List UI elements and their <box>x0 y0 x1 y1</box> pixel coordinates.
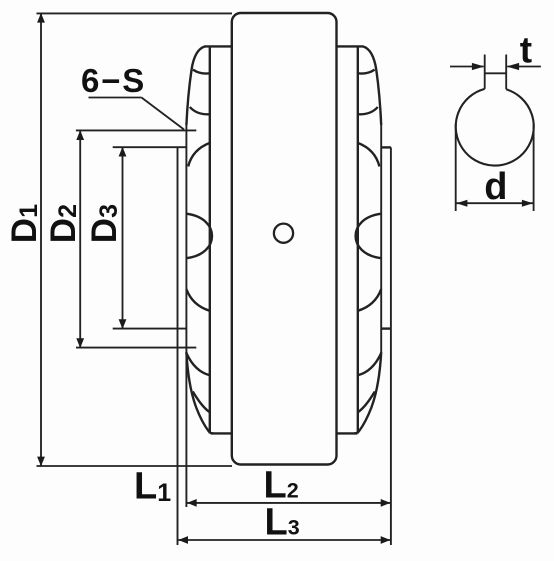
left hub face vertical (also L3 extension) <box>177 147 179 545</box>
right chain scallop arc 1 <box>358 70 375 74</box>
keyway right vertical <box>505 55 507 90</box>
left chain scallop arc 6 <box>187 354 210 376</box>
right chain edge vertical <box>380 125 382 352</box>
coupling body (center rounded rectangle) <box>232 13 337 465</box>
svg-text:D2: D2 <box>44 204 83 243</box>
L3 left arrowhead <box>178 536 188 544</box>
D3 top arrowhead <box>119 147 127 157</box>
left flange top edge <box>205 45 232 47</box>
D1 dimension line <box>40 13 42 465</box>
d left arrowhead <box>456 200 467 207</box>
right hub bottom edge <box>381 327 391 329</box>
right chain scallop arc 6 <box>358 354 381 376</box>
left chain scallop arc 1 <box>193 70 210 74</box>
left flange top profile <box>186 46 205 125</box>
D1 top arrowhead <box>37 13 45 23</box>
D2 top extension line <box>76 129 196 131</box>
keyway slot line <box>485 72 507 74</box>
D2 top arrowhead <box>76 130 84 140</box>
svg-text:L1: L1 <box>134 466 171 508</box>
svg-text:D3: D3 <box>85 204 124 243</box>
right chain roller semicircle <box>356 214 382 259</box>
D2 bottom extension line <box>76 347 196 349</box>
bore circle with keyway gap <box>456 89 534 166</box>
right hub face vertical (also L2/L3 extension) <box>390 147 392 545</box>
t right arrow line <box>507 66 541 68</box>
L2 left arrowhead <box>187 499 197 507</box>
small hole in body center <box>274 224 293 243</box>
svg-text:t: t <box>520 29 532 70</box>
right chain scallop arc 2 <box>358 107 378 114</box>
keyway left vertical <box>484 55 486 89</box>
d dimension line <box>456 202 534 204</box>
left chain edge vertical (also L2 extension) <box>185 125 187 507</box>
D3 bottom arrowhead <box>119 319 127 329</box>
right flange bottom profile <box>354 352 381 433</box>
right flange top edge <box>337 45 364 47</box>
L2 right arrowhead <box>381 499 391 507</box>
right chain scallop arc 5 <box>358 289 381 311</box>
d right arrowhead <box>522 200 533 207</box>
6-S leader underline <box>89 97 142 99</box>
right chain scallop arc 7 <box>358 392 375 413</box>
L2 dimension line <box>186 502 391 504</box>
right flange bottom edge <box>337 432 358 434</box>
svg-text:L2: L2 <box>264 465 299 507</box>
svg-text:D1: D1 <box>5 204 44 243</box>
D1 bottom extension line <box>37 465 233 467</box>
D3 bottom extension line / left hub bottom edge <box>113 328 187 330</box>
D3 dimension line <box>122 147 124 328</box>
svg-text:L3: L3 <box>265 501 300 543</box>
d left extension line <box>455 124 457 211</box>
t left arrowhead <box>472 63 485 70</box>
left sprocket face line <box>209 46 211 433</box>
left chain scallop arc 2 <box>190 107 210 114</box>
L3 right arrowhead <box>381 536 391 544</box>
left chain roller semicircle <box>186 214 212 259</box>
d right extension line <box>533 124 535 211</box>
left chain scallop arc 7 <box>193 392 210 413</box>
right chain scallop arc 3 <box>358 143 380 167</box>
right hub top edge <box>381 146 391 148</box>
L3 dimension line <box>178 539 391 541</box>
svg-text:d: d <box>484 166 507 208</box>
svg-text:6−S: 6−S <box>81 62 146 99</box>
left chain scallop arc 3 <box>188 143 210 167</box>
left chain scallop arc 5 <box>186 289 209 311</box>
D2 bottom arrowhead <box>76 338 84 348</box>
t right arrowhead <box>507 63 519 70</box>
right sprocket face line <box>357 46 359 433</box>
6-S leader diagonal <box>142 98 185 130</box>
D1 bottom arrowhead <box>37 457 45 467</box>
D1 top extension line <box>37 12 233 14</box>
D2 dimension line <box>79 131 81 348</box>
D3 top extension line / left hub top edge <box>113 146 187 148</box>
left flange bottom profile <box>186 352 213 433</box>
right flange top profile <box>363 46 381 125</box>
left flange bottom edge <box>211 432 232 434</box>
t left arrow line <box>450 66 484 68</box>
